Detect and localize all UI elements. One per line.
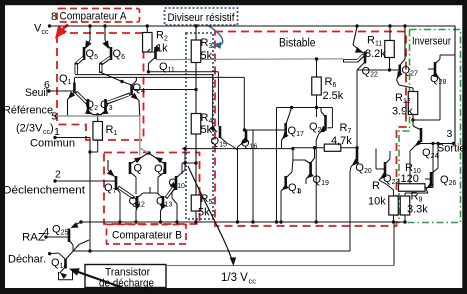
svg-text:(2/3V: (2/3V (16, 123, 43, 135)
pin 6 Seuil (25, 79, 73, 99)
transistor Q11 (147, 45, 175, 74)
label box Diviseur resistif (165, 8, 238, 25)
pin number 8 (51, 11, 57, 23)
transistor Q16 (236, 130, 258, 224)
transistor Q5 (76, 26, 98, 74)
transistor Q28 (413, 55, 455, 120)
svg-text:Diviseur résistif: Diviseur résistif (168, 12, 236, 24)
wire Q11 right net gray (156, 57, 343, 60)
resistor R10 (399, 142, 435, 191)
transistor Q6 (101, 24, 132, 85)
svg-text:Référence: Référence (3, 105, 53, 117)
svg-text:de décharge: de décharge (99, 278, 154, 290)
transistor Q8 (130, 153, 149, 194)
pin 3 Sortie (437, 128, 466, 155)
wire 1-3 tap to Q10 (183, 161, 196, 170)
wire comp A bus upper (75, 75, 213, 128)
svg-text:8: 8 (51, 11, 57, 23)
resistor R4 (191, 112, 212, 136)
ground-side rail (81, 221, 405, 223)
svg-text:3.3k: 3.3k (407, 204, 428, 216)
svg-text:5k: 5k (201, 124, 213, 136)
svg-text:Bistable: Bistable (279, 38, 316, 50)
pin 7 Decharge (8, 252, 51, 266)
ribbon Q4-Q3 (107, 94, 131, 103)
transistor Q18 (279, 160, 305, 224)
transistor Q10 (169, 149, 186, 224)
label Diviseur resistif (168, 12, 236, 24)
svg-text:4,7k: 4,7k (331, 135, 352, 147)
label box Comparateur A (57, 9, 140, 23)
transistor Q1 (59, 73, 75, 116)
transistor Q22 (fat base lead) (343, 24, 378, 78)
box Transistor de decharge (85, 265, 166, 288)
block box Bistable (red dashed) (215, 32, 406, 227)
pin Vcc (34, 23, 51, 37)
transistor Q9 (149, 153, 167, 194)
label Transistor de decharge (99, 267, 154, 290)
wire R5 to rail (194, 211, 197, 224)
svg-text:6: 6 (44, 79, 50, 91)
resistor R11 (365, 35, 394, 61)
resistor R8 (368, 180, 398, 224)
junction R1 top (93, 113, 102, 121)
svg-text:8.2k: 8.2k (365, 48, 386, 60)
junction y149 (291, 147, 294, 160)
ribbon Q10-Q13 (166, 187, 174, 198)
pin 5 Reference (3, 105, 58, 137)
svg-text:1/3 V: 1/3 V (221, 272, 248, 284)
ribbon Q1-Q2 (76, 92, 87, 103)
label 1/3 Vcc (221, 272, 256, 286)
arrow to discharge transistor Q14 (69, 268, 122, 287)
wire Q22 collector drop (356, 70, 358, 148)
ribbon Q7-Q12 (118, 187, 134, 198)
transistor Q15 (210, 125, 238, 150)
label Bistable (279, 38, 316, 50)
label box Comparateur B (107, 225, 187, 245)
svg-text:cc: cc (42, 29, 50, 36)
svg-text:3.9k: 3.9k (392, 106, 413, 118)
arrow to 1/3 Vcc label (188, 166, 236, 266)
transistor Q25 (46, 220, 83, 251)
junction comp A to Q16 Q17 (243, 128, 246, 131)
label Inverseur (412, 36, 451, 48)
transistor Q4 (131, 77, 145, 116)
wire R12 bottom net (411, 115, 440, 127)
block box Comparateur A (red dashed) (57, 33, 144, 140)
pin 2 Declenchement (3, 169, 117, 197)
junction dot Q5 rail (88, 24, 91, 27)
svg-text:2: 2 (55, 169, 61, 181)
svg-text:Sortie: Sortie (437, 143, 466, 155)
transistor Q12 (129, 193, 145, 224)
svg-text:10k: 10k (368, 196, 386, 208)
wire mid vertical x276 (275, 108, 278, 224)
pin 1 Commun (30, 126, 75, 150)
svg-text:Comparateur A: Comparateur A (60, 11, 127, 23)
svg-text:Comparateur B: Comparateur B (112, 230, 182, 242)
transistor Q27 (397, 24, 418, 91)
wire 1/3 tap (182, 163, 196, 174)
wire comp A bus lower (75, 77, 244, 130)
transistor Q26 (405, 142, 456, 196)
svg-text:2.5k: 2.5k (323, 90, 344, 102)
block box Inverseur (green dash-dot) (397, 30, 461, 223)
resistor R9 (400, 191, 428, 224)
wire R1 to commun (88, 140, 97, 154)
wire R11 bottom (357, 58, 400, 72)
transistor Q3 (100, 99, 113, 115)
svg-text:Déchar.: Déchar. (8, 254, 46, 266)
svg-text:cc: cc (249, 277, 257, 286)
svg-text:5k: 5k (201, 50, 213, 62)
svg-text:Commun: Commun (30, 138, 75, 150)
blue arrow from label to divider (207, 25, 223, 49)
Vcc rail (50, 25, 456, 27)
svg-text:Déclenchement: Déclenchement (3, 185, 85, 197)
svg-text:Q: Q (134, 163, 143, 175)
transistor Q7 (104, 160, 122, 224)
resistor R12 (392, 92, 418, 118)
bottom return wire (73, 249, 350, 252)
svg-text:RAZ: RAZ (22, 232, 45, 244)
svg-text:8: 8 (298, 189, 302, 196)
divider chain R3-R4 (194, 63, 197, 114)
resistor R3 (191, 24, 212, 62)
transistor Q14 (50, 240, 89, 280)
wire reference gray (56, 116, 140, 156)
resistor R1 (93, 122, 118, 141)
wire mid vertical x253 (251, 130, 254, 224)
transistor Q17 (282, 108, 304, 149)
wire Q4 base to divider tap (132, 89, 196, 91)
svg-text:3: 3 (447, 128, 453, 140)
wire output line (417, 143, 454, 145)
red arrow to comparator A box (55, 25, 68, 40)
wire upper mid y107 (277, 106, 333, 109)
wire comp B emitter bus (140, 148, 150, 155)
svg-text:R: R (372, 180, 380, 192)
svg-text:Inverseur: Inverseur (412, 36, 451, 48)
Vcc rail end drop (454, 26, 456, 144)
transistor Q2 (85, 99, 98, 115)
label Comparateur A (60, 11, 127, 23)
transistor Q13 (156, 193, 172, 224)
transistor Q23 (376, 149, 399, 190)
resistor R6 (312, 59, 344, 108)
transistor Q21 (309, 108, 327, 224)
transistor Q19 (305, 146, 329, 190)
divider chain R4-R5 (194, 134, 197, 195)
wire commun vertical (55, 138, 90, 252)
resistor R2 (143, 24, 169, 54)
transistor Q24 (410, 126, 438, 188)
block box Comparateur B (red dashed) (104, 153, 200, 225)
wire base line y130 (245, 129, 286, 131)
bottom gray return (166, 222, 394, 266)
wire R11 top (388, 24, 391, 42)
wire comp B out (182, 147, 293, 150)
transistor Q20 (350, 149, 372, 251)
wire R6 bottom node (317, 108, 333, 128)
block box Diviseur resistif (blue dotted) (186, 33, 213, 219)
resistor R5 (191, 193, 212, 219)
comp B cross wires (143, 187, 157, 193)
label Comparateur B (112, 230, 182, 242)
svg-text:120: 120 (401, 173, 419, 185)
wire Q11 output (147, 70, 219, 126)
resistor R7 (293, 122, 359, 151)
pin 4 RAZ (22, 226, 50, 244)
